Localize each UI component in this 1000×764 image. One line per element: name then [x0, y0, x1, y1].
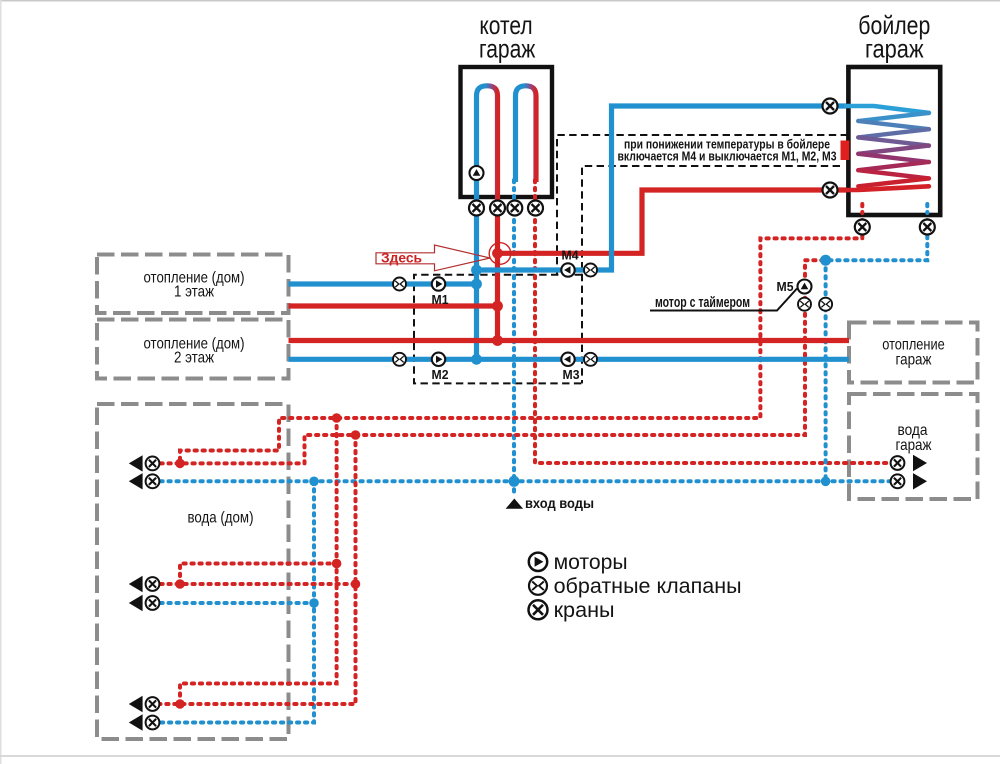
kran on boiler blue inlet — [823, 99, 838, 114]
junction dot pair2 cold — [309, 598, 319, 608]
svg-text:гараж: гараж — [479, 33, 536, 63]
wire: pair2 hot branch — [153, 582, 356, 586]
wire: blue cold riser down to house taps — [153, 481, 315, 722]
junction dot recirc riser top — [351, 430, 361, 440]
wire: boiler cold feed vertical — [824, 260, 828, 481]
junction dot red row D — [492, 301, 503, 312]
boiler coil outlet red — [846, 186, 929, 190]
svg-text:М5: М5 — [777, 280, 794, 294]
wire: boiler bottom blue port — [826, 204, 928, 260]
котел U-tube 2 (DHW circuit) — [516, 86, 537, 182]
kran on boiler red inlet — [823, 183, 838, 198]
zone box отопление гараж — [849, 323, 978, 383]
kran on boiler bottom red — [855, 220, 870, 235]
check valve row C — [393, 278, 406, 291]
svg-text:обратные клапаны: обратные клапаны — [554, 575, 742, 598]
svg-text:М1: М1 — [432, 293, 449, 307]
boiler bottom blue port stub inside — [925, 204, 929, 213]
boiler coil zigzag — [858, 113, 929, 121]
svg-text:вода (дом): вода (дом) — [188, 510, 254, 527]
Здесь callout arrow — [376, 245, 490, 271]
tap pair1 cold: kran — [146, 474, 160, 488]
tap pair2 cold: triangle — [129, 595, 143, 611]
junction dot blue row B — [471, 265, 482, 276]
вход воды triangle — [506, 499, 523, 509]
svg-text:гараж: гараж — [896, 437, 932, 454]
check valve row F left — [393, 353, 406, 366]
котел гараж unit box — [461, 67, 553, 197]
boiler bottom red port stub inside — [860, 204, 864, 213]
svg-text:М2: М2 — [432, 368, 449, 382]
wire: row D red 1 этаж supply — [289, 303, 498, 308]
svg-text:2 этаж: 2 этаж — [174, 350, 214, 367]
wire: main cold water line — [153, 479, 891, 483]
motor M5 with timer — [798, 280, 812, 294]
junction dot red row E — [492, 335, 503, 346]
legend check valve symbol — [529, 577, 547, 595]
motor M1 — [432, 277, 445, 290]
bottom separator line — [0, 755, 1000, 757]
wire: red hot riser x336 — [180, 418, 337, 704]
boiler temperature sensor — [841, 141, 850, 161]
tap pair1 hot: triangle — [129, 455, 143, 471]
мотор с таймером pointer line — [650, 289, 797, 311]
wire: row A red supply to boiler coil — [498, 190, 847, 253]
wire: red supply riser from котел (leg2) — [495, 92, 500, 341]
faint frame left — [0, 0, 2, 764]
svg-text:гараж: гараж — [896, 352, 932, 369]
manifold dashed box — [414, 275, 582, 384]
tap pair3 cold: kran — [146, 716, 160, 730]
junction dot blue row C — [471, 279, 482, 290]
faint frame top — [0, 0, 1000, 2]
wire: pair2 cold branch — [153, 601, 315, 605]
junction dot blue row F — [471, 354, 482, 365]
бойлер гараж unit box — [848, 67, 940, 215]
zone box вода (дом) — [97, 404, 289, 739]
wire: boiler bottom red port hot supply — [180, 204, 862, 463]
kran under котел leg4 — [528, 201, 543, 216]
svg-text:М3: М3 — [563, 368, 580, 382]
котел U-tube 1 (heating circuit) — [477, 86, 498, 210]
check valve row B — [584, 264, 597, 277]
junction dot water pair1 hot — [175, 459, 185, 469]
zone box вода гараж — [849, 394, 978, 499]
svg-text:моторы: моторы — [554, 551, 628, 574]
junction dot red row A — [492, 248, 503, 259]
wire: row F blue 2 этаж + гараж return — [289, 357, 850, 362]
junction dot boiler cold feed bottom — [821, 477, 831, 487]
svg-text:включается М4 и выключается М1: включается М4 и выключается М1, М2, М3 — [618, 149, 837, 164]
check valve under M5 — [798, 298, 811, 311]
wire: pair2 hot step link — [180, 564, 337, 585]
tap pair3 cold: triangle — [129, 714, 143, 730]
tap pair1 hot: kran — [146, 457, 160, 471]
junction dot pair3 hot — [175, 699, 185, 709]
tap pair3 hot: kran — [146, 697, 160, 711]
kran under котел leg2 — [490, 201, 505, 216]
tap pair2 hot: kran — [146, 577, 160, 591]
junction dot pair2 hot — [175, 579, 185, 589]
wire: row C blue 1 этаж return — [289, 281, 477, 286]
wire: blue dashed DHW cold leg from котел (leg3) — [512, 180, 516, 481]
вода гараж cold tap: triangle — [913, 473, 927, 489]
wire: red dashed DHW hot leg from котел (leg4) to вода гараж — [535, 180, 890, 463]
kran under котел leg3 — [507, 201, 522, 216]
svg-text:вход воды: вход воды — [525, 495, 594, 511]
boiler coil inlet blue — [846, 106, 929, 113]
motor M4 — [561, 263, 574, 276]
котел DHW dashed tails — [512, 180, 516, 210]
wire: blue return riser from котел (leg1) — [474, 92, 479, 359]
котел internal pump valve — [470, 166, 484, 180]
Здесь ring — [489, 243, 511, 265]
вода гараж hot tap: triangle — [913, 455, 927, 471]
junction dot pair2 recirc riser — [351, 579, 361, 589]
tap pair3 hot: triangle — [129, 696, 143, 712]
junction dot water inlet — [509, 476, 520, 487]
junction dot hot riser top — [332, 413, 342, 423]
annotation dashed wire inner (sensor to M4) — [582, 166, 840, 383]
motor M3 — [561, 353, 574, 366]
wire: cold water stub below inlet junction — [512, 481, 516, 492]
svg-text:М4: М4 — [562, 249, 579, 263]
svg-text:1 этаж: 1 этаж — [174, 284, 214, 301]
junction dot cold riser top — [309, 477, 319, 487]
вода гараж cold tap: kran — [891, 474, 905, 488]
kran on boiler bottom blue — [920, 220, 935, 235]
check valve on boiler cold feed — [819, 298, 832, 311]
svg-text:Здесь: Здесь — [381, 250, 422, 266]
legend kran symbol — [529, 600, 548, 619]
svg-text:гараж: гараж — [865, 34, 924, 64]
wire: red recirc riser x355 — [153, 435, 356, 704]
tap pair1 cold: triangle — [129, 473, 143, 489]
svg-text:мотор с таймером: мотор с таймером — [655, 294, 750, 311]
zone box отопление (дом) 2 этаж — [97, 320, 289, 379]
motor M2 — [432, 353, 445, 366]
wire: tap pair1 hot line + riser to recirc row — [153, 260, 826, 463]
kran under котел leg1 — [469, 201, 484, 216]
check valve row F right — [584, 353, 597, 366]
svg-text:краны: краны — [554, 599, 615, 622]
junction dot pair2 hot riser — [332, 559, 342, 569]
tap pair2 cold: kran — [146, 596, 160, 610]
zone box отопление (дом) 1 этаж — [97, 255, 289, 314]
wire: row E red 2 этаж + гараж supply — [289, 338, 850, 343]
вода гараж hot tap: kran — [891, 456, 905, 470]
annotation dashed wire top (sensor to M1-M3 manifold) — [557, 135, 848, 275]
legend motor symbol — [529, 553, 547, 571]
junction dot boiler cold feed top — [820, 255, 831, 266]
wire: row B blue return from boiler coil (M4 line) — [477, 106, 847, 270]
tap pair2 hot: triangle — [129, 576, 143, 592]
